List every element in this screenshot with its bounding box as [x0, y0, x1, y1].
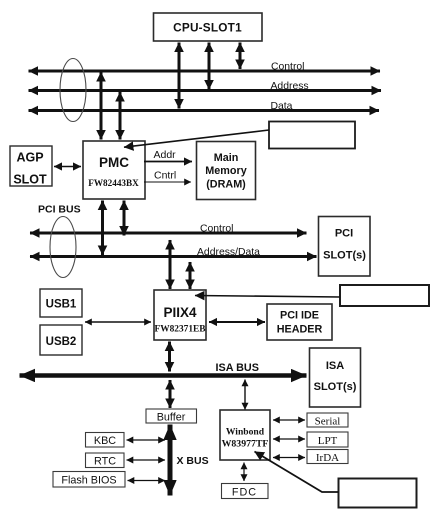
PCI Address/Data bus line — [30, 255, 317, 258]
northbridge PMC FW82443BX — [83, 141, 145, 199]
wire USB to PIIX4 — [85, 321, 151, 323]
svg-text:ISA BUS: ISA BUS — [216, 362, 259, 374]
Data bus line — [29, 109, 380, 112]
IrDA box — [307, 450, 348, 465]
wire PCI Control to PIIX4 — [169, 240, 172, 289]
leader arrow from bottom callout to Winbond — [255, 452, 339, 493]
ISA slot box ISA SLOT(s) — [310, 348, 361, 407]
USB2 box — [40, 325, 82, 355]
svg-text:SLOT(s): SLOT(s) — [323, 250, 366, 262]
KBC box — [86, 433, 125, 448]
CPU slot box CPU-SLOT1 — [154, 13, 263, 41]
svg-text:PIIX4: PIIX4 — [163, 305, 197, 320]
svg-text:Data: Data — [271, 101, 293, 112]
Flash BIOS box — [53, 472, 125, 488]
svg-text:KBC: KBC — [94, 435, 116, 447]
svg-text:Serial: Serial — [315, 416, 341, 428]
svg-text:Main: Main — [214, 152, 239, 164]
wire CPU to Control bus — [239, 43, 242, 70]
callout box (empty) right mid — [340, 285, 429, 306]
svg-text:Control: Control — [200, 224, 234, 235]
callout box (empty) bottom right — [339, 479, 417, 508]
svg-text:FW82371EB: FW82371EB — [154, 325, 205, 335]
PCI bus ellipse — [50, 217, 76, 278]
leader arrow from callout to PMC — [124, 130, 269, 147]
RTC box — [86, 453, 125, 468]
svg-text:(DRAM): (DRAM) — [206, 179, 246, 191]
svg-text:SLOT: SLOT — [13, 173, 47, 187]
wire Address bus to PMC — [119, 92, 122, 140]
svg-text:Cntrl: Cntrl — [154, 170, 176, 182]
svg-text:Flash BIOS: Flash BIOS — [61, 475, 116, 487]
svg-text:X BUS: X BUS — [177, 455, 209, 467]
svg-text:CPU-SLOT1: CPU-SLOT1 — [173, 21, 242, 35]
svg-text:Buffer: Buffer — [157, 412, 186, 424]
svg-text:Address: Address — [271, 81, 309, 92]
svg-text:Memory: Memory — [205, 165, 246, 177]
svg-text:PCI IDE: PCI IDE — [280, 310, 319, 322]
USB1 box — [40, 289, 82, 317]
wire Control bus to PMC — [100, 72, 103, 140]
wire Winbond to Serial — [273, 419, 305, 421]
PCI slot box PCI SLOT(s) — [319, 217, 371, 277]
wire PIIX4 to ISA bus — [168, 342, 171, 372]
svg-text:USB1: USB1 — [46, 299, 77, 311]
southbridge PIIX4 FW82371EB — [154, 290, 206, 340]
svg-text:IrDA: IrDA — [316, 452, 339, 464]
wire PCI Address/Data to PIIX4 — [189, 262, 192, 289]
wire ISA bus to Buffer — [169, 380, 172, 408]
svg-text:USB2: USB2 — [46, 336, 77, 348]
wire CPU to Data bus — [178, 43, 181, 109]
svg-text:RTC: RTC — [94, 456, 116, 468]
wire Cntrl PMC to Main Memory — [144, 181, 191, 183]
FDC box — [222, 484, 269, 499]
svg-text:Control: Control — [271, 62, 305, 73]
wire CPU to Address bus — [208, 43, 211, 90]
Serial box — [307, 413, 348, 428]
wire Addr PMC to Main Memory — [144, 161, 192, 163]
host bus ellipse — [60, 59, 86, 122]
X BUS thick arrow — [168, 425, 173, 496]
svg-text:HEADER: HEADER — [277, 324, 323, 336]
leader arrow from right callout to PIIX4 — [195, 296, 340, 298]
svg-text:FW82443BX: FW82443BX — [88, 178, 139, 188]
wire PMC to PCI Control — [123, 201, 126, 236]
svg-text:Address/Data: Address/Data — [197, 247, 260, 258]
AGP slot box — [10, 146, 52, 187]
callout box (empty) top — [269, 122, 355, 149]
svg-text:PCI: PCI — [335, 228, 353, 240]
svg-text:LPT: LPT — [318, 435, 338, 447]
LPT box — [307, 432, 348, 447]
svg-text:AGP: AGP — [16, 151, 43, 165]
svg-text:Addr: Addr — [154, 149, 177, 161]
wire ISA bus to Winbond — [244, 380, 246, 410]
wire RTC to X BUS — [127, 459, 166, 461]
svg-text:ISA: ISA — [326, 360, 344, 372]
svg-text:FDC: FDC — [232, 487, 257, 499]
wire KBC to X BUS — [127, 439, 166, 441]
wire Flash BIOS to X BUS — [128, 480, 166, 482]
svg-text:W83977TF: W83977TF — [222, 439, 269, 450]
Address bus line — [29, 89, 382, 92]
super IO Winbond W83977TF — [220, 410, 270, 460]
svg-text:PCI BUS: PCI BUS — [38, 204, 81, 216]
ISA bus line — [20, 373, 307, 378]
wire AGP to PMC — [54, 166, 81, 168]
Main Memory DRAM box — [197, 142, 256, 200]
Control bus line — [29, 70, 381, 73]
wire Winbond to LPT — [273, 438, 305, 440]
svg-text:SLOT(s): SLOT(s) — [314, 381, 357, 393]
wire PMC to PCI Address/Data — [101, 201, 104, 256]
PCI Control bus line — [30, 232, 307, 235]
svg-text:PMC: PMC — [99, 155, 129, 170]
wire PIIX4 to PCI IDE HEADER — [209, 321, 265, 323]
wire Winbond to FDC — [243, 463, 245, 482]
wire Winbond to IrDA — [273, 457, 305, 459]
PCI IDE HEADER box — [267, 304, 332, 340]
Buffer box — [146, 409, 197, 424]
svg-text:Winbond: Winbond — [226, 427, 265, 438]
